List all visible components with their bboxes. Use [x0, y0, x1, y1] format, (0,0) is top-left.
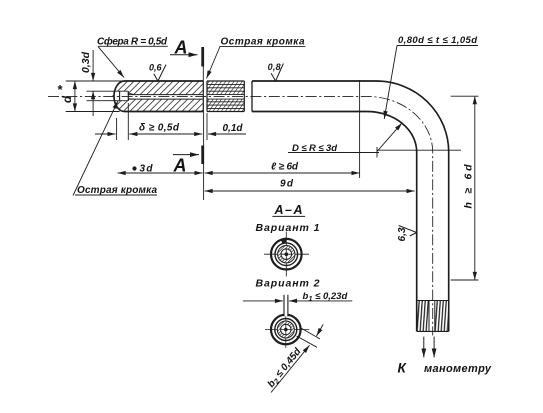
svg-text:Сфера R = 0,5d: Сфера R = 0,5d [97, 35, 168, 47]
svg-text:ℓ ≥ 6d: ℓ ≥ 6d [271, 162, 299, 173]
svg-text:0,80d ≤ t ≤ 1,05d: 0,80d ≤ t ≤ 1,05d [398, 35, 477, 46]
svg-text:3d: 3d [140, 164, 154, 175]
svg-text:манометру: манометру [424, 363, 492, 375]
svg-text:Острая кромка: Острая кромка [77, 185, 157, 196]
svg-text:0,3d: 0,3d [80, 51, 92, 73]
svg-text:А–А: А–А [274, 203, 303, 217]
svg-text:0,8: 0,8 [268, 62, 281, 72]
svg-text:А: А [173, 156, 187, 176]
svg-text:Вариант 1: Вариант 1 [256, 222, 320, 234]
svg-text:δ ≥ 0,5d: δ ≥ 0,5d [139, 123, 180, 134]
svg-text:6,3: 6,3 [397, 227, 408, 241]
svg-text:0,1d: 0,1d [223, 123, 244, 134]
svg-text:d: d [62, 95, 74, 103]
svg-text:Острая кромка: Острая кромка [221, 37, 305, 48]
svg-text:А: А [174, 38, 188, 58]
svg-text:0,6: 0,6 [149, 63, 162, 73]
svg-text:Вариант 2: Вариант 2 [256, 277, 320, 289]
svg-text:9d: 9d [280, 179, 294, 190]
svg-text:D ≤ R ≤ 3d: D ≤ R ≤ 3d [292, 143, 337, 154]
